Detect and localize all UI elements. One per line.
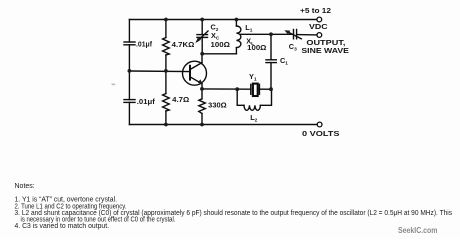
wire base line [129, 70, 189, 73]
inductor L1 coil [236, 26, 241, 48]
wire C3 to output terminal [297, 34, 317, 36]
resistor R1 4.7K leads [165, 20, 167, 38]
capacitor .01uf upper [124, 42, 135, 45]
svg-text:SeekIC.com: SeekIC.com [398, 226, 438, 235]
svg-text:0 VOLTS: 0 VOLTS [302, 129, 340, 138]
capacitor C2 plates [197, 35, 208, 38]
crystal Y1 body [253, 84, 258, 96]
capacitor .01uf lower [124, 100, 135, 103]
transistor Q1 base bar [189, 66, 191, 80]
inductor L1 top lead [235, 20, 237, 27]
inductor L2 left leg [237, 89, 244, 105]
crystal Y1 left plate [250, 84, 252, 94]
wire output tap line [240, 33, 293, 35]
svg-text:.01μf: .01μf [137, 97, 156, 106]
wire collector lead [201, 54, 203, 63]
capacitor C2 arrow [198, 31, 209, 41]
capacitor C1 line lower [270, 63, 272, 90]
wire left vertical upper [128, 20, 130, 43]
wire collector node line [202, 53, 236, 55]
svg-text:C1: C1 [280, 56, 288, 67]
resistor R3 330 leads [201, 89, 203, 99]
capacitor C3 plates [294, 30, 297, 39]
capacitor C1 plates [266, 60, 276, 63]
wire left vertical middle [128, 45, 130, 100]
svg-text:+5 to 12: +5 to 12 [300, 6, 331, 15]
transistor Q1 emitter diagonal [190, 77, 202, 84]
svg-text:L2: L2 [250, 113, 257, 124]
svg-text:SINE WAVE: SINE WAVE [301, 46, 349, 55]
capacitor C3 arrowhead [284, 30, 290, 34]
resistor R2 4.7 zigzag [163, 94, 170, 112]
wire top rail [129, 19, 316, 21]
svg-text:L1: L1 [245, 23, 252, 34]
svg-text:.01μf: .01μf [136, 40, 153, 49]
terminal output circle [317, 33, 322, 38]
capacitor C2 arrowhead [195, 37, 201, 43]
junction dots [164, 18, 168, 22]
svg-text:330Ω: 330Ω [208, 100, 227, 109]
svg-text:4.7KΩ: 4.7KΩ [172, 40, 195, 49]
wire C2 to collector node [201, 37, 203, 53]
svg-text:VDC: VDC [309, 22, 328, 31]
svg-text:100Ω: 100Ω [247, 43, 266, 52]
wire emitter node line left [202, 88, 251, 90]
inductor L2 coil [244, 105, 260, 110]
svg-text:Notes:: Notes: [15, 183, 35, 190]
wire emitter lead [201, 84, 203, 89]
crystal Y1 right plate [258, 84, 260, 94]
svg-text:C3: C3 [289, 42, 297, 53]
resistor R2 4.7 leads [165, 71, 167, 94]
capacitor C2 line from rail [201, 20, 203, 35]
terminal +V circle [317, 17, 322, 22]
inductor L2 right leg [260, 89, 271, 105]
transistor Q1 emitter arrowhead [198, 79, 203, 84]
resistor R3 330 zigzag [199, 99, 206, 114]
svg-text:100Ω: 100Ω [211, 40, 231, 49]
wire emitter node line right [259, 88, 271, 90]
svg-text:4.7Ω: 4.7Ω [172, 95, 189, 104]
transistor Q1 collector diagonal [190, 63, 202, 70]
resistor R1 4.7K zigzag [163, 38, 170, 56]
wire bottom rail [129, 124, 317, 126]
inductor L1 bottom lead [235, 48, 237, 54]
capacitor C3 arrow [288, 32, 302, 39]
svg-text:Y1: Y1 [249, 72, 257, 83]
transistor Q1 circle [183, 61, 207, 85]
capacitor C1 line upper [270, 34, 272, 60]
wire left vertical lower [128, 102, 130, 124]
scan speck [112, 84, 116, 86]
terminal 0V circle [317, 122, 322, 127]
svg-text:4. C3 is varied to match outpu: 4. C3 is varied to match output. [15, 223, 110, 230]
